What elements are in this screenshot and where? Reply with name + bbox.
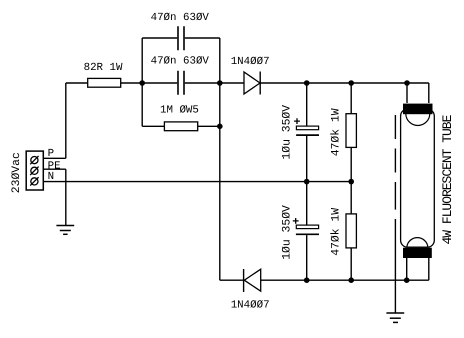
svg-text:1N4ØØ7: 1N4ØØ7 xyxy=(231,56,270,68)
svg-text:47Øn 63ØV: 47Øn 63ØV xyxy=(151,12,210,24)
wire top branch left xyxy=(142,37,177,39)
wire main line to cap C2 xyxy=(121,82,178,84)
svg-text:47Øk 1W: 47Øk 1W xyxy=(329,208,342,256)
wire 1M branch right xyxy=(198,125,220,127)
resistor R 1M 0W5 xyxy=(164,122,197,131)
wire bottom rail right xyxy=(261,279,429,281)
node junction bottom rail 10u xyxy=(304,277,310,283)
wire tube bottom right pin xyxy=(428,258,430,280)
resistor R4 470k 1W (lower) xyxy=(346,214,356,248)
node junction bottom rail 470k xyxy=(348,277,354,283)
wire tube top right pin xyxy=(428,83,430,103)
wire 1M branch left xyxy=(142,125,164,127)
wire main line to diode D1 xyxy=(185,82,244,84)
tube cap top (black) xyxy=(403,104,433,115)
terminal PE screw xyxy=(31,167,38,174)
svg-text:23ØVac: 23ØVac xyxy=(11,152,23,193)
wire top branch right xyxy=(185,37,220,39)
wire PE ground stem xyxy=(65,169,67,225)
wire bottom rail left xyxy=(220,279,244,281)
wire tube top left pin xyxy=(406,83,408,103)
wire PE terminal xyxy=(43,168,66,170)
wire 10u C4 branch lower xyxy=(306,182,308,281)
wire right vertical of parallel block xyxy=(219,38,221,280)
node junction mid rail 470k xyxy=(348,179,354,185)
wire tube bottom left pin xyxy=(406,258,408,280)
wire ground stem right xyxy=(394,219,396,313)
capacitor C4 10u 350V (lower electrolytic) xyxy=(296,225,318,229)
svg-text:1Øu 35ØV: 1Øu 35ØV xyxy=(281,105,293,160)
wire P vertical to main line xyxy=(65,83,67,158)
fluorescent tube body xyxy=(401,109,435,247)
wire main line left segment xyxy=(66,82,88,84)
svg-text:82R 1W: 82R 1W xyxy=(84,62,123,74)
svg-text:1N4ØØ7: 1N4ØØ7 xyxy=(231,299,270,311)
wire left vertical of parallel block xyxy=(141,38,143,126)
ground (left, PE) xyxy=(56,226,74,235)
capacitor C2 470n 630V (on main line) xyxy=(178,71,184,95)
connector J1 body xyxy=(26,151,43,190)
wire main line right of D1 xyxy=(260,82,429,84)
node junction main-left vertical xyxy=(139,80,145,86)
terminal N screw xyxy=(31,178,38,185)
svg-text:47Øn 63ØV: 47Øn 63ØV xyxy=(151,56,210,68)
node junction 1M-right vertical xyxy=(217,124,223,130)
tube dashed discharge line xyxy=(394,115,396,210)
capacitor C1 470n 630V (top branch) xyxy=(178,26,184,50)
terminal P screw xyxy=(31,157,38,164)
ground (right) xyxy=(386,313,404,322)
wire 10u C3 branch upper xyxy=(306,83,308,182)
node junction top rail 470k xyxy=(348,80,354,86)
plus mark C4 xyxy=(293,218,299,224)
tube filament arc bottom xyxy=(407,238,428,248)
diode D2 1N4007 (lower, pointing left) xyxy=(244,269,260,291)
wire N rail xyxy=(43,181,351,183)
wire P terminal xyxy=(43,157,66,159)
tube cap bottom (black) xyxy=(403,248,432,258)
node junction main-right vertical xyxy=(217,80,223,86)
svg-text:1Øu 35ØV: 1Øu 35ØV xyxy=(281,205,293,260)
wire 470k R4 branch lower xyxy=(350,182,352,281)
svg-text:1M ØW5: 1M ØW5 xyxy=(160,105,199,117)
node junction top rail 10u xyxy=(304,80,310,86)
node junction bottom rail tube xyxy=(404,277,410,283)
svg-text:4W FLUORESCENT TUBE: 4W FLUORESCENT TUBE xyxy=(440,114,455,244)
resistor R 82R 1W xyxy=(88,78,121,87)
node junction mid rail 10u xyxy=(304,179,310,185)
plus mark C3 xyxy=(294,118,300,124)
resistor R3 470k 1W (upper) xyxy=(346,114,356,148)
wire 470k R3 branch upper xyxy=(350,83,352,182)
diode D1 1N4007 (upper, pointing right) xyxy=(244,72,260,94)
tube filament arc top xyxy=(406,114,430,126)
node junction top rail tube xyxy=(404,80,410,86)
svg-text:47Øk 1W: 47Øk 1W xyxy=(329,108,342,156)
capacitor C3 10u 350V (upper electrolytic) xyxy=(296,126,318,130)
